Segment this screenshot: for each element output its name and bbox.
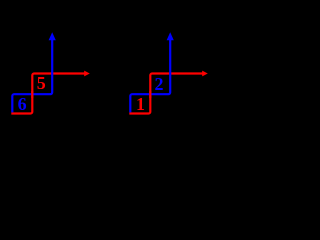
right diagram: blue staircase path: [130, 39, 170, 113]
right diagram: red staircase path: [129, 74, 203, 114]
left diagram: blue axis arrowhead: [49, 32, 56, 40]
left diagram: blue staircase path: [12, 39, 52, 113]
right diagram: blue axis arrowhead: [167, 32, 174, 40]
svg-text:5: 5: [37, 73, 46, 93]
svg-text:2: 2: [155, 74, 164, 94]
svg-text:6: 6: [18, 94, 27, 114]
left diagram: red staircase path: [11, 74, 85, 114]
right diagram: red over blue at crossing: [149, 91, 151, 98]
left diagram: red over blue at crossing: [31, 91, 33, 98]
right diagram: red axis arrowhead: [202, 71, 208, 77]
svg-text:1: 1: [136, 94, 145, 114]
left diagram: red axis arrowhead: [84, 71, 90, 77]
